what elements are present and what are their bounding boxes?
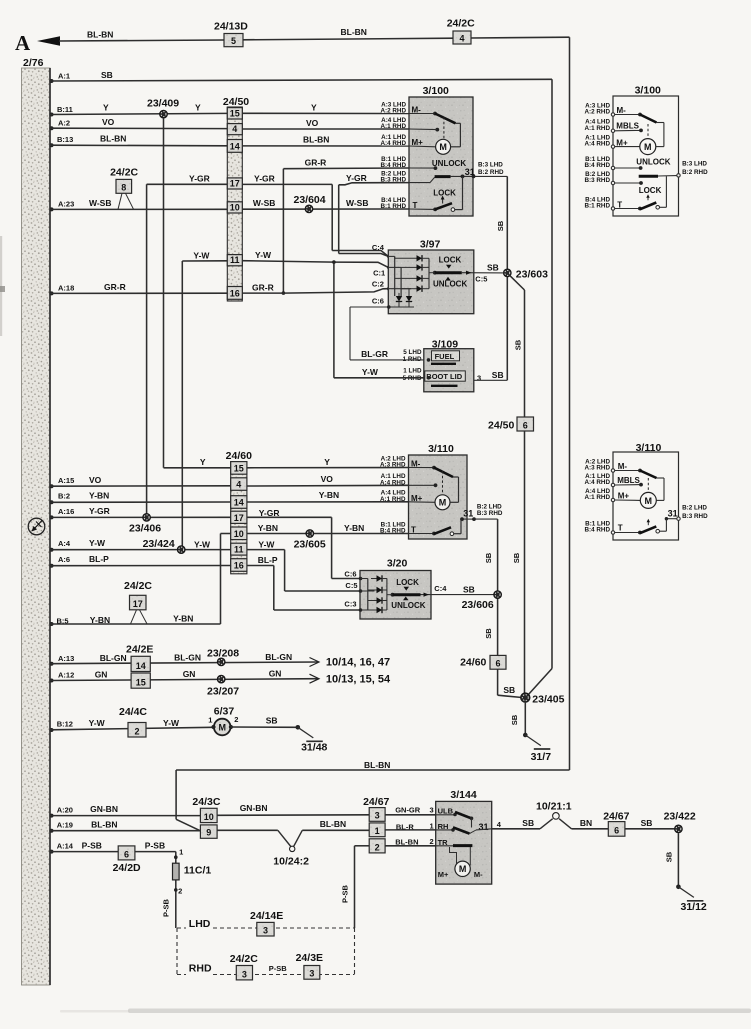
svg-text:B:1 RHD: B:1 RHD: [380, 203, 406, 210]
svg-text:A:20: A:20: [57, 805, 73, 814]
svg-text:23/606: 23/606: [462, 599, 494, 611]
svg-text:BL-BN: BL-BN: [100, 134, 126, 144]
svg-text:BL-GN: BL-GN: [174, 652, 201, 662]
svg-text:Y: Y: [200, 457, 206, 467]
svg-text:Y-W: Y-W: [163, 718, 180, 728]
svg-text:6: 6: [523, 420, 528, 430]
svg-text:3: 3: [309, 969, 314, 979]
svg-text:A:1 RHD: A:1 RHD: [380, 123, 406, 130]
svg-text:Y: Y: [311, 103, 317, 113]
svg-text:GR-R: GR-R: [305, 158, 327, 168]
svg-text:A:14: A:14: [57, 842, 74, 851]
svg-text:C:5: C:5: [475, 275, 487, 284]
svg-text:SB: SB: [641, 818, 653, 828]
svg-text:SB: SB: [665, 851, 674, 862]
svg-text:8: 8: [121, 183, 126, 193]
svg-text:Y-W: Y-W: [255, 250, 272, 260]
svg-text:3/20: 3/20: [387, 558, 408, 570]
svg-text:24/67: 24/67: [363, 796, 389, 808]
svg-text:24/14E: 24/14E: [250, 910, 283, 922]
svg-text:23/422: 23/422: [664, 810, 696, 822]
svg-text:FUEL: FUEL: [435, 352, 455, 361]
svg-text:14: 14: [230, 142, 240, 152]
svg-text:C:6: C:6: [344, 569, 356, 578]
svg-text:A:3 RHD: A:3 RHD: [380, 462, 406, 469]
svg-text:T: T: [618, 523, 623, 532]
svg-text:W-SB: W-SB: [346, 198, 369, 208]
svg-text:3/100: 3/100: [423, 85, 449, 97]
svg-text:Y-W: Y-W: [193, 250, 210, 260]
svg-text:RHD: RHD: [189, 963, 212, 975]
svg-text:LOCK: LOCK: [433, 188, 456, 197]
svg-text:Y-BN: Y-BN: [344, 523, 364, 533]
svg-text:B:4 RHD: B:4 RHD: [380, 162, 406, 169]
svg-text:BL-GR: BL-GR: [361, 349, 388, 359]
svg-text:3: 3: [242, 969, 247, 979]
svg-text:A:1 RHD: A:1 RHD: [380, 496, 406, 503]
svg-text:P-SB: P-SB: [269, 964, 288, 973]
svg-text:11: 11: [234, 545, 244, 555]
svg-text:11: 11: [230, 255, 240, 265]
svg-text:Y-BN: Y-BN: [173, 614, 193, 624]
svg-text:A:1: A:1: [58, 72, 70, 81]
svg-text:Y-W: Y-W: [89, 538, 106, 548]
svg-text:C:6: C:6: [372, 296, 384, 305]
svg-text:A:4 RHD: A:4 RHD: [584, 141, 610, 148]
svg-text:10/14, 16, 47: 10/14, 16, 47: [326, 657, 390, 669]
svg-text:24/2C: 24/2C: [447, 18, 475, 30]
svg-text:GN: GN: [183, 669, 196, 679]
svg-text:UNLOCK: UNLOCK: [433, 280, 467, 289]
svg-text:31/48: 31/48: [301, 742, 327, 754]
svg-text:24/2C: 24/2C: [124, 580, 152, 592]
svg-text:24/50: 24/50: [488, 419, 514, 431]
svg-text:P-SB: P-SB: [82, 840, 102, 850]
svg-text:M+: M+: [438, 870, 449, 879]
svg-text:SB: SB: [503, 685, 515, 695]
svg-text:SB: SB: [463, 584, 475, 594]
svg-text:10: 10: [234, 529, 244, 539]
svg-text:17: 17: [234, 513, 244, 523]
svg-text:A:1 RHD: A:1 RHD: [584, 494, 610, 501]
svg-text:W-SB: W-SB: [253, 198, 276, 208]
svg-text:Y-GR: Y-GR: [346, 173, 367, 183]
svg-text:A:15: A:15: [58, 476, 74, 485]
svg-text:BL-BN: BL-BN: [303, 135, 329, 145]
svg-text:M: M: [644, 142, 652, 152]
svg-text:1 LHD: 1 LHD: [403, 368, 422, 375]
svg-text:BL-BN: BL-BN: [87, 30, 113, 40]
svg-text:16: 16: [234, 561, 244, 571]
svg-text:23/603: 23/603: [516, 269, 548, 281]
svg-text:M+: M+: [618, 491, 630, 500]
svg-text:3/100: 3/100: [635, 85, 661, 97]
svg-text:B:3 LHD: B:3 LHD: [478, 162, 503, 169]
svg-text:Y: Y: [195, 103, 201, 113]
svg-text:SB: SB: [484, 628, 493, 639]
svg-text:3/144: 3/144: [450, 789, 476, 801]
svg-text:LHD: LHD: [189, 918, 211, 930]
svg-text:B:2 RHD: B:2 RHD: [478, 169, 504, 176]
svg-text:A:13: A:13: [58, 654, 74, 663]
svg-text:MBLS: MBLS: [617, 476, 640, 485]
svg-text:B:4 RHD: B:4 RHD: [584, 527, 610, 534]
svg-text:BL-GN: BL-GN: [100, 653, 127, 663]
svg-text:5: 5: [231, 36, 236, 46]
svg-text:A:6: A:6: [58, 555, 70, 564]
svg-text:W-SB: W-SB: [89, 198, 112, 208]
svg-text:A:16: A:16: [58, 507, 74, 516]
svg-text:6: 6: [124, 849, 129, 859]
svg-text:P-SB: P-SB: [341, 884, 350, 903]
svg-text:2: 2: [234, 715, 238, 724]
svg-text:31/7: 31/7: [531, 751, 552, 763]
svg-text:BL-BN: BL-BN: [91, 819, 117, 829]
svg-text:M+: M+: [616, 138, 628, 147]
svg-text:B:4 RHD: B:4 RHD: [380, 528, 406, 535]
svg-text:Y-W: Y-W: [194, 540, 211, 550]
svg-text:14: 14: [234, 498, 244, 508]
svg-text:A:4 RHD: A:4 RHD: [380, 140, 406, 147]
svg-text:LOCK: LOCK: [639, 186, 662, 195]
svg-text:Y-GR: Y-GR: [259, 508, 280, 518]
svg-text:10: 10: [204, 812, 214, 822]
svg-text:6: 6: [495, 659, 500, 669]
svg-text:SB: SB: [101, 70, 113, 80]
svg-text:A:3 RHD: A:3 RHD: [584, 465, 610, 472]
svg-text:Y-W: Y-W: [89, 718, 106, 728]
svg-text:ULB: ULB: [438, 806, 454, 815]
svg-text:B:1 RHD: B:1 RHD: [584, 203, 610, 210]
svg-text:14: 14: [136, 661, 146, 671]
svg-text:1: 1: [430, 821, 434, 830]
svg-text:GR-R: GR-R: [252, 282, 274, 292]
svg-text:B:12: B:12: [57, 719, 73, 728]
svg-text:23/605: 23/605: [294, 539, 326, 551]
svg-text:M-: M-: [617, 106, 627, 115]
svg-text:5 LHD: 5 LHD: [403, 349, 422, 356]
svg-text:24/2D: 24/2D: [113, 862, 141, 874]
svg-text:24/2C: 24/2C: [230, 953, 258, 965]
svg-text:C:4: C:4: [372, 243, 385, 252]
svg-text:A:12: A:12: [58, 671, 74, 680]
svg-text:GN-BN: GN-BN: [90, 804, 118, 814]
svg-text:24/2E: 24/2E: [126, 644, 153, 656]
svg-text:23/604: 23/604: [294, 194, 326, 206]
svg-text:SB: SB: [492, 370, 504, 380]
svg-text:10: 10: [230, 202, 240, 212]
svg-text:SB: SB: [266, 715, 278, 725]
svg-text:A: A: [15, 31, 31, 55]
svg-text:SB: SB: [487, 263, 499, 273]
svg-text:SB: SB: [510, 714, 519, 725]
svg-text:10/13, 15, 54: 10/13, 15, 54: [326, 674, 391, 686]
svg-text:B:3 RHD: B:3 RHD: [584, 177, 610, 184]
svg-text:23/409: 23/409: [147, 98, 179, 110]
svg-text:B:11: B:11: [57, 105, 73, 114]
svg-text:24/4C: 24/4C: [119, 706, 147, 718]
svg-text:16: 16: [230, 289, 240, 299]
svg-text:24/3C: 24/3C: [192, 796, 220, 808]
svg-text:B:3 LHD: B:3 LHD: [682, 160, 707, 167]
svg-text:A:2 RHD: A:2 RHD: [584, 109, 610, 116]
svg-text:2: 2: [134, 726, 139, 736]
svg-text:C:1: C:1: [373, 268, 385, 277]
svg-text:23/424: 23/424: [143, 538, 175, 550]
svg-text:10/24:2: 10/24:2: [273, 856, 309, 868]
svg-text:BL-GN: BL-GN: [265, 652, 292, 662]
svg-text:M-: M-: [474, 870, 483, 879]
svg-text:9: 9: [206, 828, 211, 838]
svg-text:15: 15: [230, 108, 240, 118]
svg-text:VO: VO: [89, 475, 102, 485]
svg-text:A:18: A:18: [58, 284, 74, 293]
svg-text:Y-GR: Y-GR: [189, 174, 210, 184]
svg-text:3: 3: [477, 373, 481, 382]
svg-text:MBLS: MBLS: [616, 122, 639, 131]
svg-text:23/208: 23/208: [207, 648, 239, 660]
svg-text:Y-GR: Y-GR: [89, 506, 110, 516]
svg-text:P-SB: P-SB: [145, 840, 165, 850]
svg-text:GR-R: GR-R: [104, 282, 126, 292]
svg-text:A:2: A:2: [58, 119, 70, 128]
svg-text:23/406: 23/406: [129, 523, 161, 535]
svg-text:SB: SB: [512, 552, 521, 563]
svg-text:31: 31: [668, 509, 678, 519]
svg-text:VO: VO: [321, 474, 334, 484]
svg-text:6/37: 6/37: [214, 706, 235, 718]
svg-text:4: 4: [459, 33, 464, 43]
svg-text:17: 17: [133, 599, 143, 609]
svg-text:1: 1: [375, 826, 380, 836]
svg-text:GN-BN: GN-BN: [240, 803, 268, 813]
svg-text:11C/1: 11C/1: [184, 865, 212, 877]
svg-text:24/2C: 24/2C: [110, 167, 138, 179]
svg-text:1: 1: [208, 716, 212, 725]
svg-text:2: 2: [430, 837, 434, 846]
svg-text:24/13D: 24/13D: [214, 21, 248, 33]
svg-text:GN: GN: [95, 670, 108, 680]
svg-text:M: M: [218, 722, 226, 732]
svg-text:GN: GN: [269, 668, 282, 678]
svg-text:Y: Y: [103, 103, 109, 113]
svg-text:B:2 LHD: B:2 LHD: [682, 504, 707, 511]
svg-text:P-SB: P-SB: [162, 898, 171, 917]
svg-text:B:3 RHD: B:3 RHD: [477, 510, 503, 517]
svg-text:Y-BN: Y-BN: [319, 490, 339, 500]
svg-text:15: 15: [136, 678, 146, 688]
svg-text:LOCK: LOCK: [396, 578, 419, 587]
svg-text:B:4 RHD: B:4 RHD: [584, 162, 610, 169]
svg-text:BN: BN: [580, 818, 592, 828]
svg-text:C:2: C:2: [372, 279, 384, 288]
svg-text:B:3 RHD: B:3 RHD: [682, 513, 708, 520]
svg-text:A:4 RHD: A:4 RHD: [380, 479, 406, 486]
svg-text:UNLOCK: UNLOCK: [636, 157, 670, 166]
svg-text:LOCK: LOCK: [439, 256, 462, 265]
svg-text:Y: Y: [324, 457, 330, 467]
svg-text:23/405: 23/405: [532, 694, 564, 706]
svg-text:SB: SB: [496, 220, 505, 231]
svg-text:SB: SB: [514, 339, 523, 350]
svg-text:15: 15: [234, 464, 244, 474]
svg-text:C:4: C:4: [434, 584, 447, 593]
svg-text:4: 4: [236, 480, 241, 490]
svg-text:24/67: 24/67: [603, 811, 629, 823]
svg-text:24/60: 24/60: [460, 657, 486, 669]
svg-text:B:13: B:13: [57, 135, 73, 144]
svg-text:3: 3: [375, 811, 380, 821]
svg-text:A:4: A:4: [58, 539, 71, 548]
svg-text:B:3 RHD: B:3 RHD: [380, 177, 406, 184]
svg-text:2: 2: [178, 887, 182, 896]
svg-text:Y-BN: Y-BN: [258, 523, 278, 533]
svg-text:SB: SB: [522, 818, 534, 828]
svg-text:Y-BN: Y-BN: [89, 491, 109, 501]
svg-text:M: M: [459, 864, 467, 874]
svg-text:6: 6: [614, 826, 619, 836]
svg-text:10/21:1: 10/21:1: [536, 801, 572, 813]
svg-text:A:2 RHD: A:2 RHD: [380, 108, 406, 115]
svg-text:B:2 RHD: B:2 RHD: [682, 169, 708, 176]
svg-text:C:3: C:3: [344, 600, 356, 609]
svg-text:BL-BN: BL-BN: [320, 819, 346, 829]
svg-text:M: M: [439, 142, 447, 152]
svg-text:A:1 RHD: A:1 RHD: [584, 125, 610, 132]
svg-text:24/60: 24/60: [226, 450, 252, 462]
svg-text:VO: VO: [306, 118, 319, 128]
svg-text:A:23: A:23: [58, 200, 74, 209]
svg-text:Y-W: Y-W: [362, 367, 379, 377]
svg-text:24/3E: 24/3E: [296, 952, 323, 964]
svg-text:2: 2: [375, 842, 380, 852]
svg-text:BL-P: BL-P: [258, 555, 278, 565]
svg-text:Y-W: Y-W: [258, 540, 275, 550]
svg-text:B:2: B:2: [58, 492, 70, 501]
svg-text:31/12: 31/12: [681, 901, 707, 913]
svg-text:M: M: [439, 498, 447, 508]
svg-text:BL-BN: BL-BN: [364, 760, 390, 770]
svg-text:SB: SB: [484, 552, 493, 563]
svg-text:C:5: C:5: [345, 581, 357, 590]
svg-text:A:4 RHD: A:4 RHD: [584, 479, 610, 486]
svg-text:Y-GR: Y-GR: [254, 173, 275, 183]
svg-text:BOOT LID: BOOT LID: [426, 372, 462, 381]
svg-text:UNLOCK: UNLOCK: [432, 159, 466, 168]
svg-text:A:19: A:19: [57, 821, 73, 830]
svg-text:GN-GR: GN-GR: [395, 806, 421, 815]
svg-text:24/50: 24/50: [223, 96, 249, 108]
svg-text:1: 1: [179, 848, 183, 857]
svg-text:3/110: 3/110: [428, 443, 454, 455]
svg-text:VO: VO: [102, 117, 115, 127]
svg-text:BL-BN: BL-BN: [341, 27, 367, 37]
svg-text:M-: M-: [618, 462, 628, 471]
svg-text:UNLOCK: UNLOCK: [391, 601, 425, 610]
svg-text:31: 31: [479, 822, 489, 832]
svg-text:23/207: 23/207: [207, 686, 239, 698]
svg-text:M: M: [645, 496, 653, 506]
svg-text:4: 4: [232, 124, 237, 134]
svg-text:17: 17: [230, 178, 240, 188]
svg-text:3: 3: [430, 806, 434, 815]
svg-text:31: 31: [463, 509, 473, 519]
svg-text:3: 3: [263, 925, 268, 935]
svg-text:BL-P: BL-P: [89, 554, 109, 564]
svg-text:2/76: 2/76: [23, 57, 44, 69]
svg-text:3/97: 3/97: [420, 238, 441, 250]
